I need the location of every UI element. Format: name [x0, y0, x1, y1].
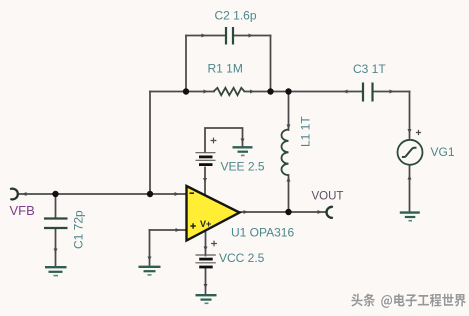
svg-text:L1 1T: L1 1T: [299, 116, 313, 147]
svg-text:VG1: VG1: [431, 145, 455, 159]
svg-text:R1 1M: R1 1M: [208, 62, 243, 76]
svg-text:VEE 2.5: VEE 2.5: [221, 160, 265, 174]
svg-text:U1 OPA316: U1 OPA316: [231, 226, 294, 240]
svg-text:V+: V+: [200, 219, 211, 229]
svg-text:VOUT: VOUT: [312, 190, 344, 202]
svg-text:C3 1T: C3 1T: [353, 62, 386, 76]
svg-text:C1 72p: C1 72p: [72, 210, 86, 249]
svg-text:VCC 2.5: VCC 2.5: [219, 251, 265, 265]
svg-text:C2 1.6p: C2 1.6p: [215, 9, 257, 23]
svg-text:VFB: VFB: [10, 203, 35, 218]
